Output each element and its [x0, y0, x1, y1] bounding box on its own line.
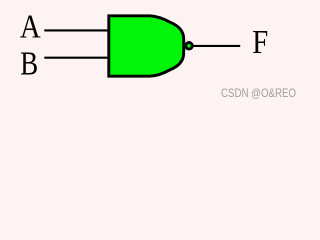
wire output F: [193, 45, 240, 47]
wire input A: [44, 29, 108, 31]
svg-text:F: F: [252, 23, 268, 61]
svg-text:A: A: [20, 7, 41, 45]
svg-text:CSDN @O&REO: CSDN @O&REO: [221, 87, 296, 100]
NAND gate U1 body: [109, 16, 184, 76]
NAND gate U1 inversion bubble: [186, 43, 193, 50]
svg-text:B: B: [20, 45, 38, 83]
wire input B: [44, 57, 108, 59]
